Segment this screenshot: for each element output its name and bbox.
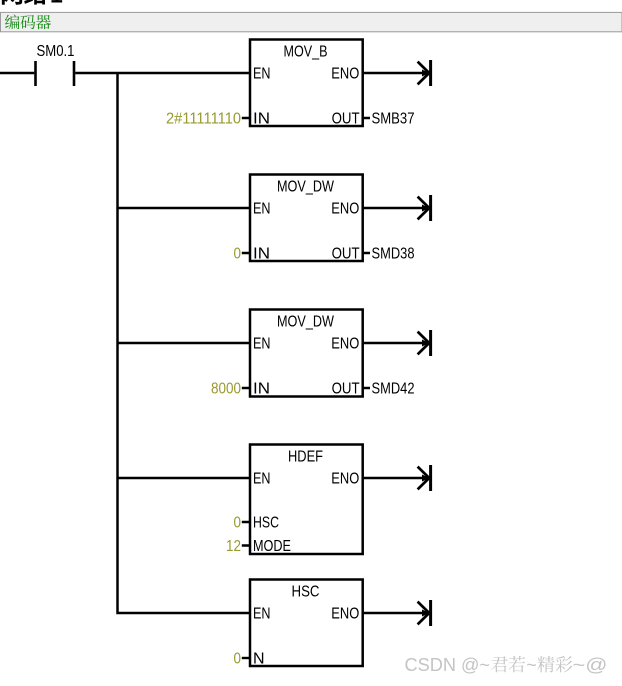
svg-text:IN: IN — [253, 245, 270, 262]
svg-text:8000: 8000 — [211, 380, 241, 397]
svg-text:SMB37: SMB37 — [372, 110, 415, 127]
svg-text:SM0.1: SM0.1 — [37, 43, 75, 60]
svg-text:OUT: OUT — [332, 245, 360, 262]
svg-text:N: N — [253, 650, 265, 667]
svg-text:EN: EN — [253, 335, 271, 352]
svg-text:MOV_DW: MOV_DW — [277, 313, 335, 330]
svg-text:OUT: OUT — [332, 110, 360, 127]
svg-text:2#11111110: 2#11111110 — [166, 110, 241, 127]
svg-text:12: 12 — [226, 538, 241, 555]
svg-text:0: 0 — [234, 650, 242, 667]
svg-text:SMD42: SMD42 — [372, 380, 415, 397]
svg-text:0: 0 — [234, 514, 242, 531]
svg-text:HDEF: HDEF — [288, 448, 323, 465]
svg-text:MODE: MODE — [253, 538, 291, 555]
svg-text:CSDN: CSDN — [405, 655, 457, 675]
svg-text:ENO: ENO — [331, 470, 359, 487]
svg-text:EN: EN — [253, 470, 271, 487]
svg-text:MOV_DW: MOV_DW — [277, 178, 335, 195]
svg-text:ENO: ENO — [331, 605, 359, 622]
svg-text:ENO: ENO — [331, 200, 359, 217]
svg-text:EN: EN — [253, 200, 271, 217]
svg-text:~@: ~@ — [573, 655, 608, 675]
svg-text:EN: EN — [253, 65, 271, 82]
svg-text:SMD38: SMD38 — [372, 245, 415, 262]
svg-text:@~: @~ — [461, 655, 490, 675]
svg-text:EN: EN — [253, 605, 271, 622]
svg-text:OUT: OUT — [332, 380, 360, 397]
svg-text:ENO: ENO — [331, 335, 359, 352]
svg-text:HSC: HSC — [253, 514, 279, 531]
svg-text:1: 1 — [50, 0, 63, 7]
svg-text:IN: IN — [253, 380, 270, 397]
svg-text:IN: IN — [253, 110, 270, 127]
svg-text:HSC: HSC — [292, 583, 320, 600]
svg-text:0: 0 — [234, 245, 242, 262]
svg-text:ENO: ENO — [331, 65, 359, 82]
svg-text:MOV_B: MOV_B — [284, 43, 328, 60]
svg-text:~: ~ — [526, 655, 537, 675]
